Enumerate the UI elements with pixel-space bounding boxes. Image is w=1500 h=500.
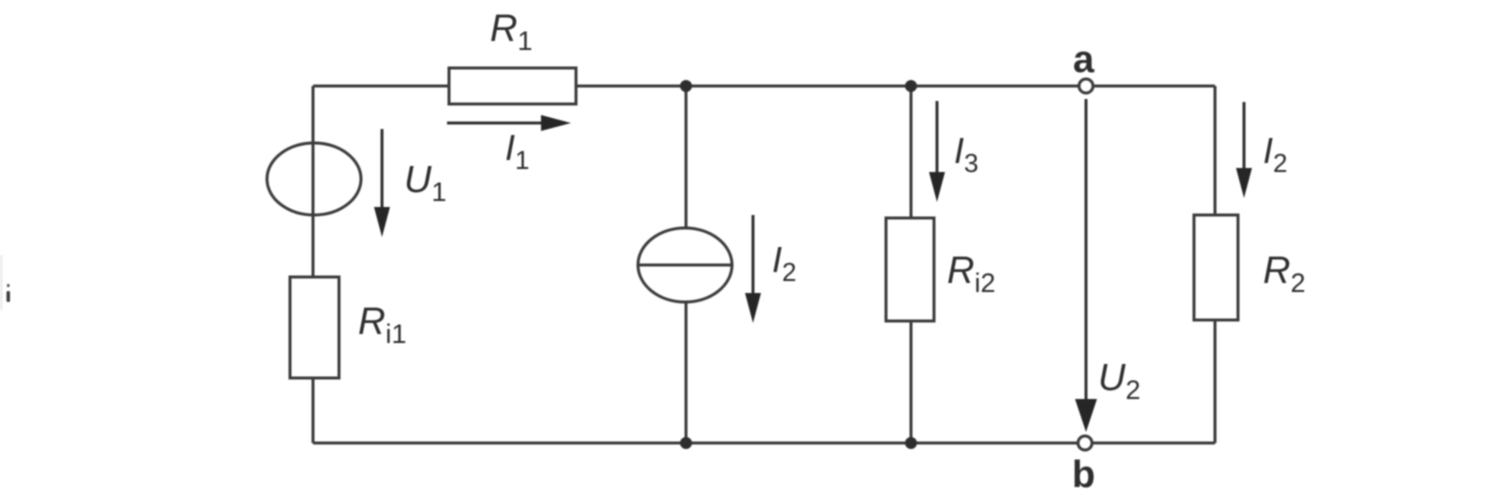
wire left branch lower bbox=[312, 378, 315, 443]
wire right branch upper bbox=[1214, 86, 1217, 215]
svg-text:Ri1: Ri1 bbox=[358, 301, 406, 349]
wire top-right horizontal bbox=[576, 85, 1215, 88]
wire bottom horizontal bbox=[313, 442, 1215, 445]
arrow U2 bbox=[1085, 99, 1088, 405]
svg-text:a: a bbox=[1073, 39, 1095, 81]
resistor Ri2 bbox=[886, 218, 934, 321]
wire Ri2 branch lower bbox=[910, 321, 913, 443]
wire middle branch lower bbox=[685, 302, 688, 443]
junction bottom middle bbox=[680, 437, 692, 449]
svg-text:I3: I3 bbox=[954, 130, 978, 178]
svg-text:b: b bbox=[1072, 454, 1095, 496]
wire top-left horizontal bbox=[313, 85, 449, 88]
arrow I3 bbox=[936, 101, 939, 177]
svg-text:I2: I2 bbox=[1263, 130, 1287, 178]
node a terminal bbox=[1079, 79, 1093, 93]
wire Ri2 branch upper bbox=[910, 86, 913, 218]
wire left branch upper bbox=[312, 86, 315, 277]
svg-text:R2: R2 bbox=[1263, 250, 1305, 298]
svg-text:I1: I1 bbox=[505, 127, 529, 175]
resistor R2 bbox=[1194, 215, 1238, 320]
svg-text:U2: U2 bbox=[1098, 357, 1140, 405]
voltage source U1 symbol bbox=[267, 143, 361, 215]
arrow I2 middle bbox=[752, 215, 755, 297]
arrow U1 bbox=[381, 129, 384, 212]
current source I2 symbol bbox=[638, 228, 732, 302]
svg-text:I2: I2 bbox=[772, 239, 796, 287]
wire right branch lower bbox=[1214, 320, 1217, 443]
svg-text:Ri2: Ri2 bbox=[947, 250, 995, 298]
arrow I2 right bbox=[1243, 102, 1246, 173]
node b terminal bbox=[1078, 436, 1092, 450]
edge artifact mark bbox=[0, 255, 3, 310]
arrow I1 bbox=[447, 122, 545, 125]
resistor Ri1 bbox=[290, 277, 339, 378]
svg-text:U1: U1 bbox=[404, 159, 446, 207]
junction top Ri2 bbox=[905, 80, 917, 92]
svg-text:R1: R1 bbox=[490, 8, 532, 56]
resistor R1 bbox=[449, 68, 576, 104]
junction bottom Ri2 bbox=[905, 437, 917, 449]
wire middle branch upper bbox=[685, 86, 688, 228]
junction top middle bbox=[680, 80, 692, 92]
current source bar bbox=[638, 264, 732, 267]
